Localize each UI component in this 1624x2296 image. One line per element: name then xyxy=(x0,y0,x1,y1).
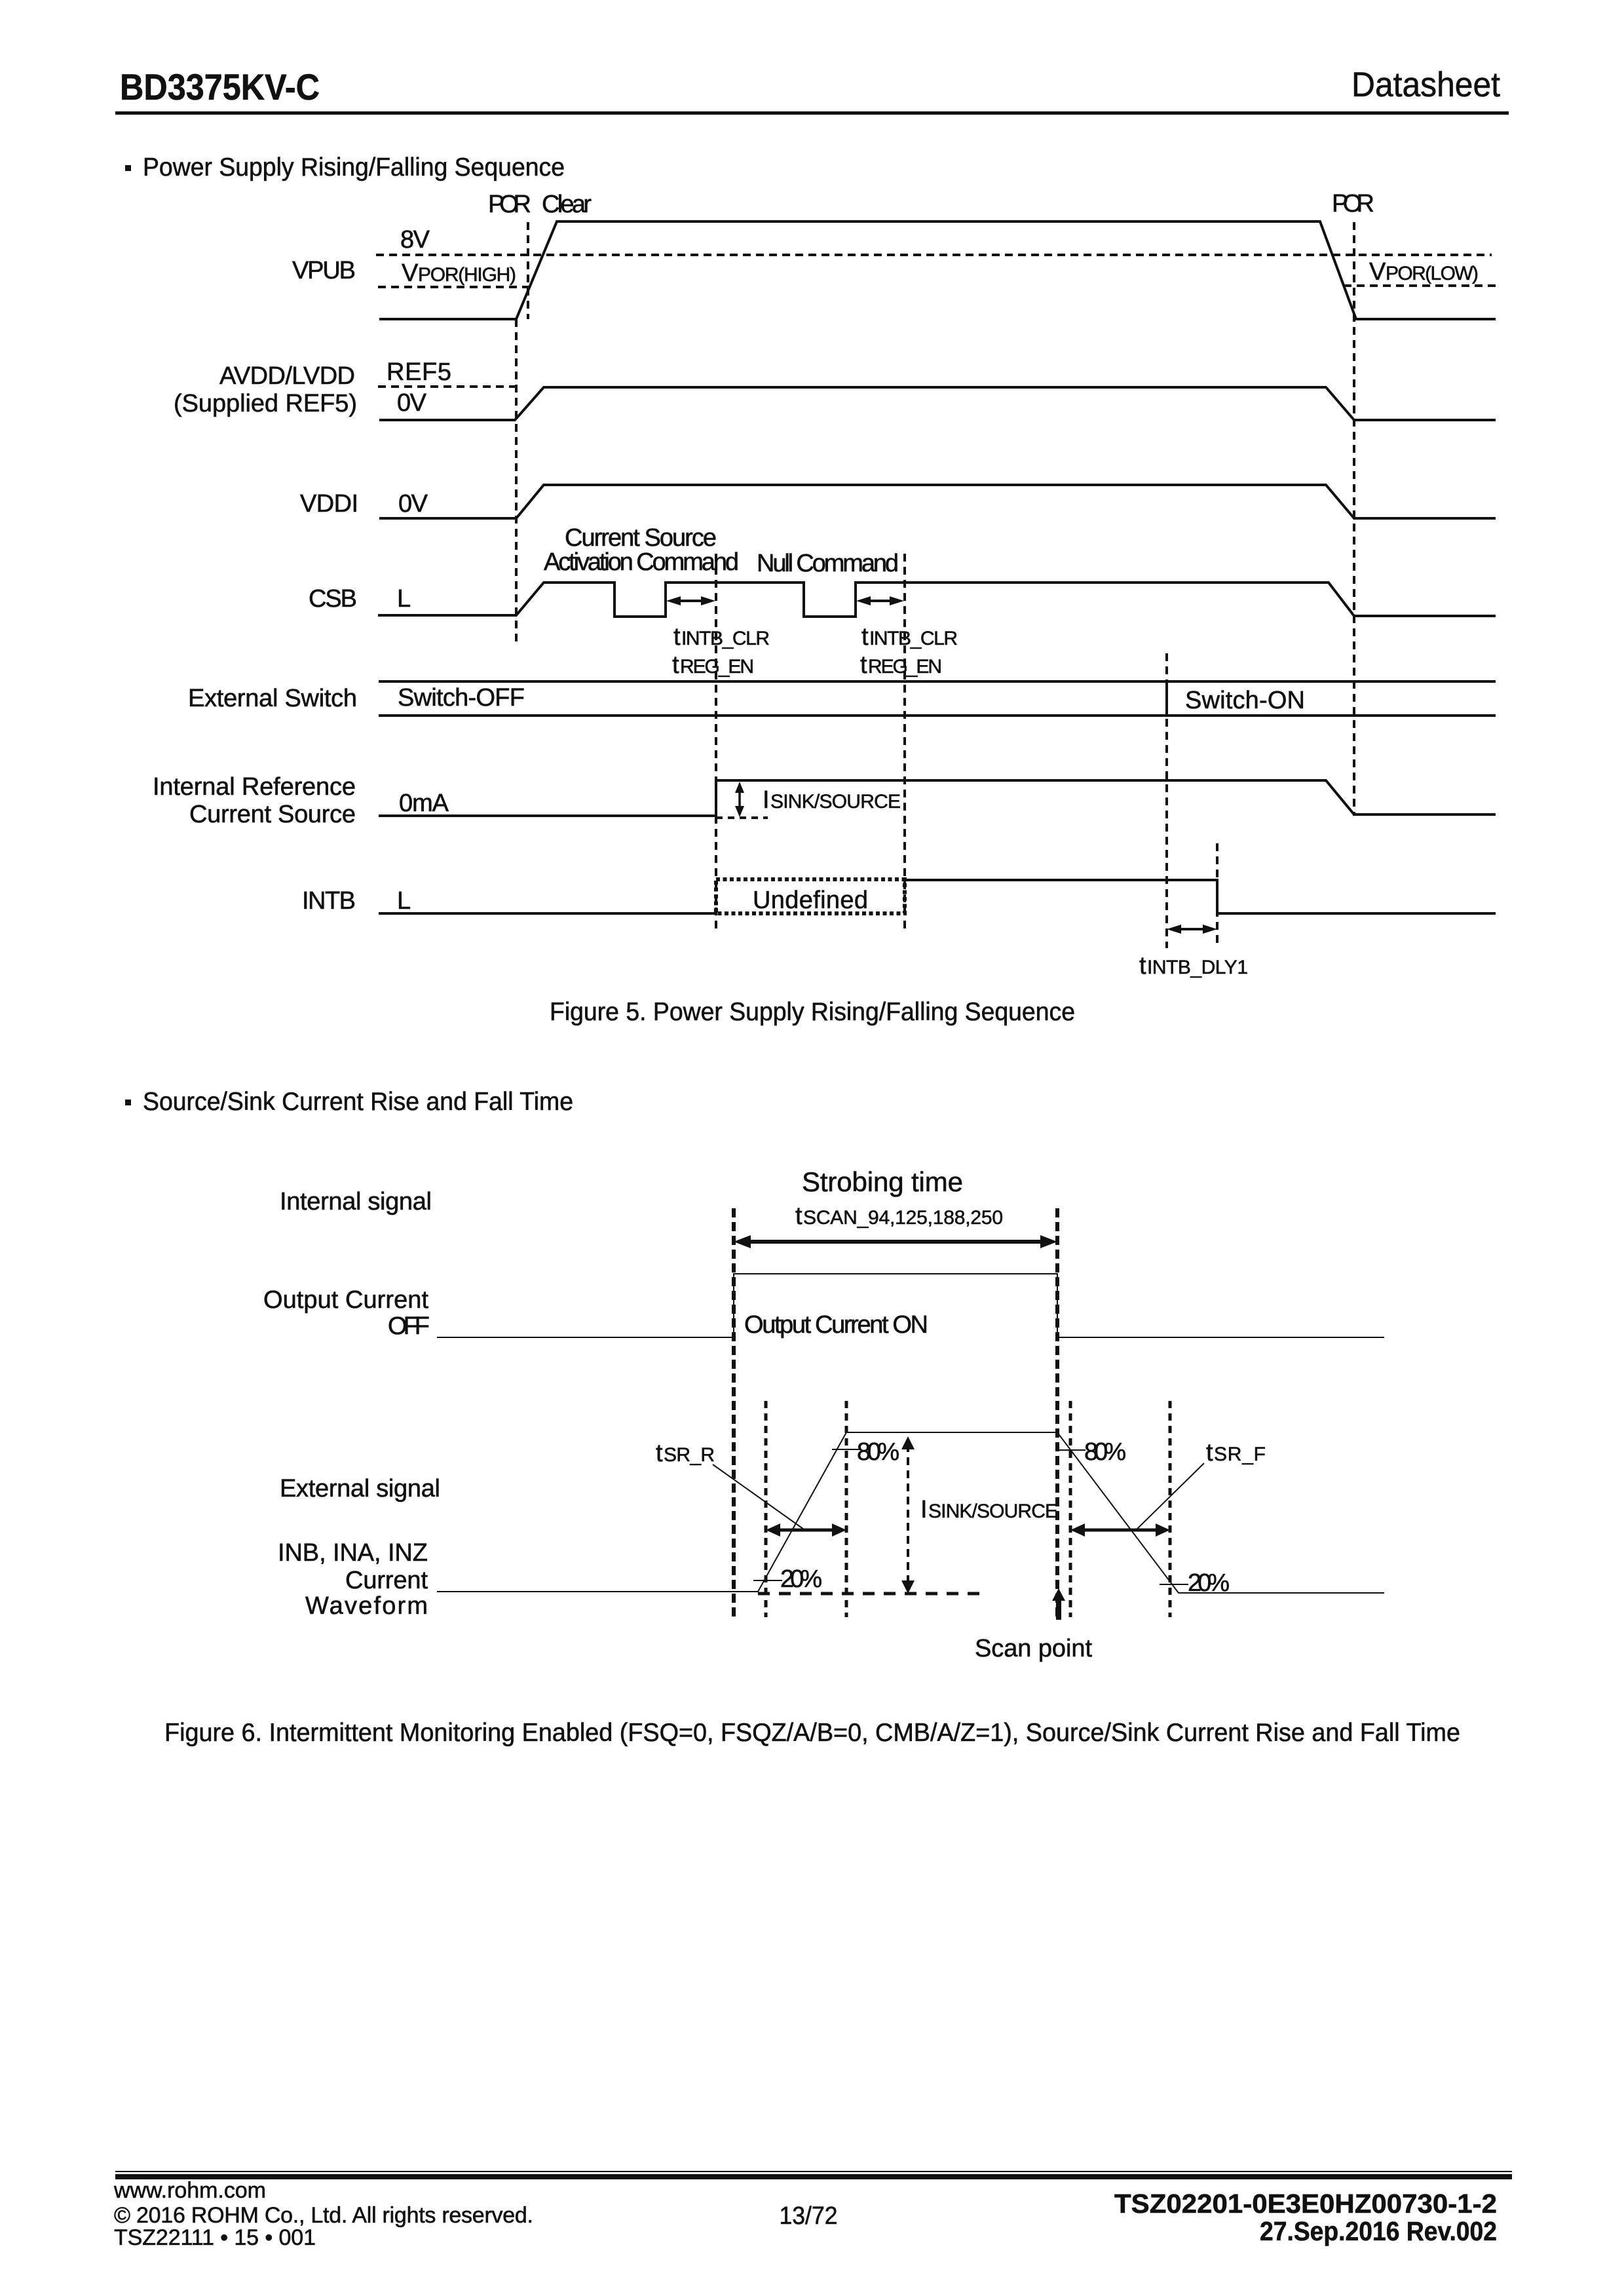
svg-text:Undefined: Undefined xyxy=(753,887,868,914)
svg-text:20%: 20% xyxy=(1188,1569,1230,1597)
svg-text:INB, INA, INZ: INB, INA, INZ xyxy=(278,1539,428,1567)
svg-text:Figure 5. Power Supply Rising/: Figure 5. Power Supply Rising/Falling Se… xyxy=(550,998,1075,1026)
svg-text:Switch-ON: Switch-ON xyxy=(1185,687,1305,714)
svg-text:t: t xyxy=(1206,1439,1213,1466)
svg-text:(Supplied REF5): (Supplied REF5) xyxy=(174,390,357,417)
svg-text:V: V xyxy=(402,259,419,287)
svg-text:I: I xyxy=(763,786,770,814)
svg-text:SR_F: SR_F xyxy=(1214,1444,1266,1465)
svg-text:L: L xyxy=(397,887,411,915)
svg-text:13/72: 13/72 xyxy=(780,2202,838,2230)
svg-text:CSB: CSB xyxy=(309,585,357,613)
svg-text:V: V xyxy=(1369,258,1386,286)
svg-text:Current: Current xyxy=(345,1567,428,1594)
svg-text:INTB: INTB xyxy=(302,887,356,915)
svg-text:REG_EN: REG_EN xyxy=(868,656,942,678)
svg-text:0V: 0V xyxy=(398,490,428,518)
svg-text:t: t xyxy=(656,1440,663,1467)
svg-text:POR(LOW): POR(LOW) xyxy=(1386,263,1479,284)
svg-text:8V: 8V xyxy=(400,226,430,254)
svg-text:L: L xyxy=(397,585,411,613)
svg-text:Internal signal: Internal signal xyxy=(280,1188,432,1215)
svg-text:INTB_DLY1: INTB_DLY1 xyxy=(1147,957,1248,978)
svg-text:POR: POR xyxy=(1332,190,1374,218)
svg-text:AVDD/LVDD: AVDD/LVDD xyxy=(219,362,355,390)
svg-text:t: t xyxy=(861,623,869,651)
svg-text:INTB_CLR: INTB_CLR xyxy=(869,628,958,649)
svg-text:REG_EN: REG_EN xyxy=(680,656,754,678)
svg-text:0V: 0V xyxy=(397,389,427,417)
svg-text:Power Supply Rising/Falling Se: Power Supply Rising/Falling Sequence xyxy=(143,153,565,182)
svg-text:POR: POR xyxy=(488,191,531,218)
svg-text:t: t xyxy=(1139,952,1146,980)
svg-text:Source/Sink Current Rise and F: Source/Sink Current Rise and Fall Time xyxy=(143,1088,573,1116)
svg-text:I: I xyxy=(920,1496,928,1523)
svg-text:OFF: OFF xyxy=(388,1312,430,1340)
svg-text:www.rohm.com: www.rohm.com xyxy=(113,2178,266,2203)
svg-text:SCAN_94,125,188,250: SCAN_94,125,188,250 xyxy=(803,1207,1003,1229)
svg-text:80%: 80% xyxy=(1084,1438,1126,1466)
svg-text:Datasheet: Datasheet xyxy=(1351,66,1500,104)
svg-text:Output Current: Output Current xyxy=(263,1286,428,1314)
svg-text:80%: 80% xyxy=(857,1438,899,1466)
svg-text:REF5: REF5 xyxy=(387,358,451,386)
svg-text:Strobing time: Strobing time xyxy=(802,1166,963,1197)
svg-text:Null Command: Null Command xyxy=(757,550,899,577)
svg-text:0mA: 0mA xyxy=(399,790,449,817)
svg-text:SINK/SOURCE: SINK/SOURCE xyxy=(928,1501,1058,1522)
svg-text:t: t xyxy=(672,651,679,679)
svg-text:t: t xyxy=(795,1202,803,1230)
svg-text:27.Sep.2016 Rev.002: 27.Sep.2016 Rev.002 xyxy=(1260,2216,1497,2246)
svg-text:TSZ02201-0E3E0HZ00730-1-2: TSZ02201-0E3E0HZ00730-1-2 xyxy=(1114,2189,1497,2219)
svg-text:t: t xyxy=(860,651,867,679)
svg-text:Current Source: Current Source xyxy=(189,801,356,828)
svg-text:BD3375KV-C: BD3375KV-C xyxy=(120,66,320,107)
svg-text:External signal: External signal xyxy=(280,1475,440,1502)
svg-text:Figure 6. Intermittent Monitor: Figure 6. Intermittent Monitoring Enable… xyxy=(164,1719,1460,1747)
svg-text:Waveform: Waveform xyxy=(305,1592,428,1620)
svg-text:INTB_CLR: INTB_CLR xyxy=(681,628,770,649)
svg-text:© 2016 ROHM Co., Ltd. All righ: © 2016 ROHM Co., Ltd. All rights reserve… xyxy=(114,2203,533,2228)
svg-text:VPUB: VPUB xyxy=(292,257,356,284)
svg-text:VDDI: VDDI xyxy=(300,490,358,518)
svg-text:SR_R: SR_R xyxy=(664,1444,715,1466)
svg-text:External Switch: External Switch xyxy=(188,685,357,712)
svg-text:SINK/SOURCE: SINK/SOURCE xyxy=(770,791,901,813)
svg-text:Scan point: Scan point xyxy=(975,1635,1092,1662)
svg-text:Switch-OFF: Switch-OFF xyxy=(398,684,525,712)
svg-text:Clear: Clear xyxy=(542,191,592,218)
svg-text:Current Source: Current Source xyxy=(565,524,717,552)
svg-text:TSZ22111 • 15 • 001: TSZ22111 • 15 • 001 xyxy=(114,2225,316,2250)
svg-text:t: t xyxy=(673,623,681,651)
svg-text:Output Current ON: Output Current ON xyxy=(744,1311,928,1339)
svg-text:Activation Command: Activation Command xyxy=(544,548,739,576)
svg-text:POR(HIGH): POR(HIGH) xyxy=(418,264,516,286)
svg-text:20%: 20% xyxy=(780,1565,822,1593)
svg-text:Internal Reference: Internal Reference xyxy=(153,773,356,801)
